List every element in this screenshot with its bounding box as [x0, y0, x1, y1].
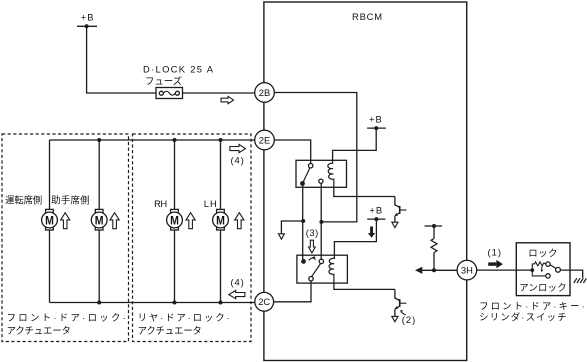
svg-text:3H: 3H [461, 265, 473, 276]
wire stub to open arrow (cont.) [281, 221, 303, 234]
wire resistor to 3H row [433, 253, 435, 271]
svg-text:+B: +B [81, 11, 94, 22]
svg-text:アクチュエータ: アクチュエータ [138, 325, 202, 336]
relay U2 actuate arrow [309, 256, 316, 260]
motor M3 (RH) [167, 140, 183, 303]
svg-text:D·LOCK 25 A: D·LOCK 25 A [143, 63, 214, 74]
junction nodes bottom bus [97, 301, 101, 305]
relay U1 arm [303, 168, 310, 184]
motor M1 (driver side) [42, 140, 58, 303]
relay U2 output contact (bottom) [309, 277, 313, 281]
connector 2B [255, 83, 275, 103]
hollow down arrow (3) [309, 240, 316, 253]
wire relay U1 coil to transistor Q1 [334, 187, 395, 196]
key cylinder switch box [516, 243, 570, 296]
svg-text:2B: 2B [259, 87, 270, 98]
wire 2E to relay U1 contact [274, 140, 310, 163]
open down arrow under Q2 [392, 316, 398, 321]
wire row to 3H with left arrowhead (cont.) [422, 269, 457, 271]
key switch arm [550, 265, 556, 269]
svg-text:フロント·ドア·ロック·: フロント·ドア·ロック· [7, 312, 126, 323]
wire +B down to fuse row [87, 26, 156, 93]
key switch small arrow [541, 267, 544, 273]
svg-text:(1): (1) [488, 246, 502, 257]
svg-text:RH: RH [154, 198, 167, 209]
wire +B to relay U1 coil [333, 128, 377, 160]
flow arrow (hollow right) at 2E [230, 144, 246, 152]
svg-text:運転席側: 運転席側 [5, 194, 42, 205]
wire relay U2 output to connector 2C [273, 281, 311, 302]
svg-text:アンロック: アンロック [519, 282, 566, 293]
junction node [432, 268, 436, 272]
wire 2B to relay supply column [274, 93, 357, 222]
connector 3H [457, 260, 477, 280]
svg-text:(3): (3) [306, 227, 318, 238]
curved arrow (2) pointer [400, 310, 406, 315]
wire relay U1 common down to relay U2 common [302, 185, 304, 262]
filled left arrowhead [415, 267, 422, 274]
svg-text:(4): (4) [231, 276, 244, 287]
svg-text:M: M [95, 214, 104, 228]
wire 3H to key cylinder switch [477, 269, 517, 271]
svg-text:(2): (2) [402, 314, 416, 325]
svg-text:リヤ·ドア·ロック·: リヤ·ドア·ロック· [138, 312, 230, 323]
open down arrow (continuation) [278, 234, 284, 239]
flow arrow (hollow left) at 2C [229, 290, 245, 298]
actuator box front (dashed) [2, 134, 129, 342]
key switch resistor branch (lock) [532, 262, 545, 270]
relay U1 common contact [300, 181, 305, 186]
svg-text:アクチュエータ: アクチュエータ [7, 325, 71, 336]
key switch unlock contact [546, 274, 550, 278]
up arrow M2 [110, 213, 119, 229]
key switch unlock branch [532, 270, 545, 276]
top bus wire to 2E [50, 139, 255, 141]
relay U1 second contact [319, 179, 323, 183]
transistor Q2 [395, 289, 407, 316]
svg-text:2E: 2E [259, 134, 270, 145]
svg-text:LH: LH [204, 198, 217, 209]
relay U2 (unlock relay) box [297, 255, 348, 283]
node on bar [432, 224, 436, 228]
resistor R1 supply bar [425, 225, 443, 227]
svg-text:M: M [45, 214, 54, 228]
up arrow M1 [61, 213, 70, 229]
svg-text:シリンダ·スイッチ: シリンダ·スイッチ [479, 312, 566, 323]
junction node on common wire [301, 219, 305, 223]
up arrow M3 [186, 213, 195, 229]
wire +B to relay U2 coil [334, 219, 376, 255]
svg-text:+B: +B [369, 205, 382, 216]
open down arrow under Q1 [392, 222, 398, 227]
motor M2 (passenger side) [91, 140, 107, 303]
chassis ground [574, 278, 587, 283]
relay U2 arm [312, 263, 321, 276]
connector 2C [255, 292, 274, 311]
relay U2 coil [329, 255, 334, 283]
svg-text:RBCM: RBCM [352, 11, 382, 22]
key switch pivot contact [556, 267, 561, 272]
wire fuse to connector 2B [183, 92, 255, 94]
svg-text:M: M [170, 214, 179, 228]
motor M4 (LH) [213, 140, 229, 303]
up arrow M4 [235, 213, 244, 229]
flow arrow (hollow right) on 2B feed [221, 96, 234, 103]
wire relay U2 coil to transistor Q2 [334, 283, 395, 289]
filled down flow arrow beside +B wire [368, 227, 375, 238]
key switch common node [516, 269, 532, 271]
svg-text:+B: +B [369, 113, 382, 124]
relay U2 fixed contact (top) [319, 259, 323, 263]
svg-text:ロック: ロック [528, 248, 557, 259]
filled right arrow (1) [488, 260, 503, 268]
transistor Q1 [395, 197, 407, 223]
svg-text:2C: 2C [258, 296, 270, 307]
power +B (relay U2 coil supply) [367, 205, 385, 222]
wire relay U1 NO contact down to relay U2 [320, 183, 322, 259]
relay U1 (lock relay) box [296, 160, 347, 187]
actuator box rear (dashed) [133, 134, 252, 342]
fuse D·LOCK 25A [143, 63, 214, 98]
connector 2E [255, 130, 275, 150]
svg-text:M: M [216, 214, 225, 228]
power +B (battery feed, top left) [77, 11, 97, 28]
RBCM module box [264, 2, 467, 361]
power +B (relay U1 coil supply) [367, 113, 386, 130]
svg-text:フューズ: フューズ [145, 75, 182, 86]
bottom bus wire to 2C [50, 302, 255, 304]
junction nodes top bus [97, 138, 101, 142]
relay U2 common contact [301, 259, 306, 264]
relay U1 fixed contact (to 2E) [309, 164, 313, 168]
wire key switch to ground [560, 270, 582, 278]
relay U1 coil [328, 160, 334, 187]
key switch lock contact [546, 262, 550, 266]
svg-text:(4): (4) [231, 155, 244, 166]
svg-text:助手席側: 助手席側 [51, 194, 89, 205]
resistor R1 [431, 239, 437, 253]
junction node 2B feed [319, 220, 323, 224]
wire bar to resistor [433, 226, 435, 239]
